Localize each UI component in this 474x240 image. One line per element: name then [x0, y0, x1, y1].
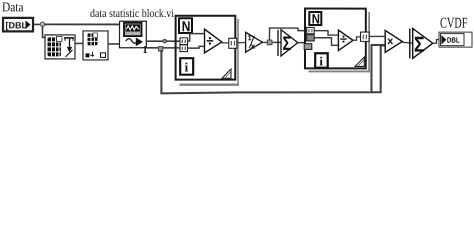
label Data [2, 3, 23, 12]
junction square on lower output [158, 47, 163, 52]
wire bypass junction2 to loop2 upper tunnel [270, 28, 307, 40]
wire junction down to icon A1 [43, 26, 46, 38]
wire A2 to subVI lower input [108, 43, 120, 45]
loop1 iteration terminal i [180, 58, 193, 75]
wire sum1 to loop2 third tunnel [298, 42, 304, 44]
loop1 input tunnel upper [180, 38, 188, 45]
wire A1 to A2 [75, 42, 83, 44]
junction square 2 [267, 40, 272, 45]
label CVDF [440, 18, 467, 28]
wire divide2 to loop2 output tunnel [353, 37, 361, 40]
sum node 2 [410, 28, 433, 58]
wire rail second riser branch [371, 45, 385, 92]
junction dot on upper output [163, 39, 167, 43]
wire junction to subVI upper input [44, 23, 119, 25]
junction node [40, 22, 44, 26]
indicator terminal CVDF DBL [439, 32, 472, 47]
loop2 folded corner [355, 57, 364, 67]
wire bottom rail from junction to multiply lower input [161, 45, 385, 94]
wire control to junction [34, 23, 42, 25]
wire subVI lower output into loop1 [146, 47, 180, 49]
divide node 2 [338, 30, 353, 51]
wire loop2 to multiply upper input [369, 35, 385, 37]
array function icon A1 [45, 35, 75, 59]
loop1 output tunnel [229, 38, 237, 48]
wire loop2 upper tunnel to divide2 [314, 31, 338, 35]
loop2 input tunnel lower gray [304, 44, 312, 50]
reciprocal node 1/x [246, 32, 263, 52]
loop1 folded corner [222, 69, 231, 78]
wire loop2 middle tunnel to divide2 [314, 38, 338, 46]
wire divide1 to output tunnel [222, 42, 229, 44]
divide node 1 [204, 29, 221, 53]
loop2 iteration terminal i [315, 53, 328, 68]
for-loop 2 border [305, 9, 370, 73]
control terminal Data [DBL] [3, 18, 33, 32]
wire sum2 to indicator [433, 40, 439, 44]
subVI data statistic block.vi [119, 21, 147, 53]
loop2 input tunnel middle gray [307, 35, 315, 41]
label data statistic block.vi [90, 9, 173, 17]
multiply node [385, 30, 402, 52]
wire multiply to sum2 [402, 41, 412, 44]
sum node 1 [278, 30, 298, 56]
loop2 input tunnel upper [307, 27, 315, 33]
wire upper tunnel to divide1 x input [188, 34, 205, 42]
wire subVI upper output into loop1 [146, 40, 180, 42]
wire reciprocal to sum1 [263, 41, 282, 43]
for-loop 1 border [176, 16, 239, 86]
wire loop1 to reciprocal [237, 42, 246, 44]
loop1 input tunnel lower [180, 45, 188, 52]
loop1 count terminal N [179, 18, 192, 33]
loop2 count terminal N [309, 12, 321, 25]
wire lower tunnel to divide1 y input [188, 46, 205, 48]
loop2 output tunnel [361, 32, 370, 41]
array function icon A2 [83, 31, 108, 60]
